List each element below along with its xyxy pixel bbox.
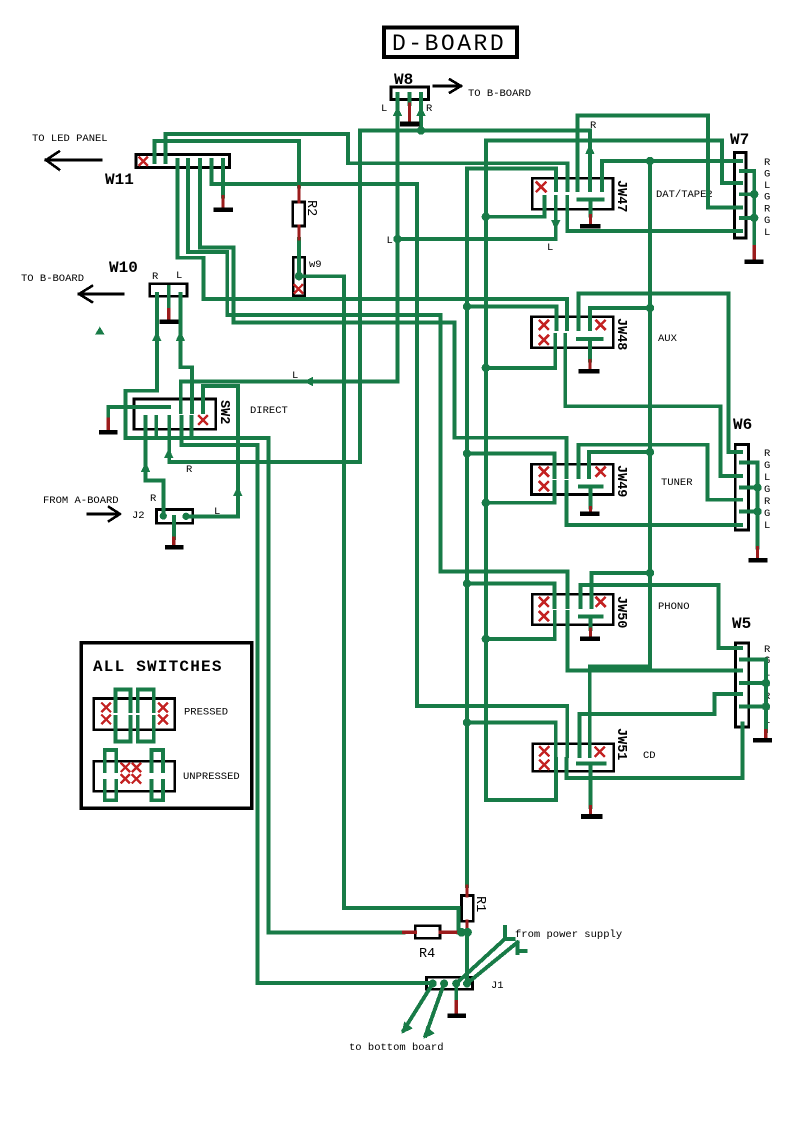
arrowhead to bottom board A [402,1022,413,1034]
X mark W11 pin1 [140,158,148,166]
wire J1 to bottom board arrow A [404,984,433,1031]
junction dot w9 pin [295,272,303,280]
wire SW2 pin b1 to J2 R pin [146,417,164,516]
connector JW49 [532,464,614,494]
wire W8 L pin down to SW2 pin t1 [181,94,398,412]
wire W8 center pin stub [408,94,412,104]
connector W10 [150,284,187,296]
junction dots W5 G bus [762,679,770,687]
wire W11 pin7 ground stub [221,160,225,197]
red lead W8 ground [408,104,411,122]
junction dots W7 G bus [750,190,758,198]
wire W8 R pin to junction [419,94,423,131]
svg-text:UNPRESSED: UNPRESSED [183,771,240,783]
X marks JW48 [540,321,605,344]
connector W5 [736,643,749,727]
arrow up W10 R [152,331,161,341]
arrow up J2 L line [233,486,242,496]
svg-text:PHONO: PHONO [658,601,690,613]
arrow up SW2 b1 to J2 R [141,462,150,472]
wire R bus tap to JW50 pin b1 [486,612,555,639]
svg-text:R: R [426,103,433,115]
red lead JW51 ground [589,807,592,814]
wire W6 G pins bus [741,463,758,548]
wire W10 center ground stub [167,287,171,310]
wire JW50 pin t4 to record bus [592,573,651,607]
red lead R4 right [440,931,458,934]
wire JW48 ground tee [578,339,602,361]
arrow down JW47 L [551,220,560,230]
svg-text:R: R [186,464,193,476]
svg-text:ALL SWITCHES: ALL SWITCHES [93,658,223,676]
svg-text:R: R [152,271,159,283]
svg-text:CD: CD [643,750,656,762]
red lead R1 bottom [465,921,468,931]
svg-text:R: R [764,496,771,508]
red lead JW49 ground [589,508,592,512]
svg-text:JW50: JW50 [613,596,628,628]
X mark w9 [295,285,303,293]
wire W11 pin3 to JW48 pin t2 [178,160,567,329]
svg-text:DIRECT: DIRECT [250,405,288,417]
ground JW48 [579,369,600,374]
wire JW51 pin t3 to W5 R2 [579,694,741,756]
wire L bus tap to JW48 pin t1 [467,307,557,329]
junction dot record bus JW50 [646,569,654,577]
wire SW2 left bar to ground [108,407,169,419]
X mark SW2 [199,416,207,424]
arrow TO B-BOARD left [79,286,123,302]
svg-text:G: G [764,169,770,181]
svg-text:W10: W10 [109,259,138,277]
arrow left L line [303,377,313,386]
svg-text:DAT/TAPE2: DAT/TAPE2 [656,189,713,201]
wire JW48 pin b2 to W6 L1 [565,335,741,476]
legend pressed X marks [102,704,167,724]
wire JW49 pin t4 to record bus [589,452,650,477]
junction dot L bus JW50 [463,579,471,587]
connector W11 [136,155,230,168]
red lead W11 ground [221,197,224,209]
arrow TO B-BOARD (right) [434,80,461,93]
ground W6 [748,558,767,563]
arrow TO LED PANEL (left) [46,152,101,170]
svg-text:R: R [764,157,771,169]
svg-text:R: R [764,204,771,216]
red lead J1 ground [455,1002,458,1014]
ground JW49 [580,511,600,516]
wire L bus vertical x467 to R1 [467,169,556,887]
arrow up W10 L [176,331,185,341]
svg-text:L: L [547,242,553,254]
red lead JW50 ground [589,629,592,637]
X marks JW50 [540,598,605,621]
jumper w9 [293,257,304,295]
svg-text:R: R [150,493,157,505]
wire JW48 pin t4 to record bus [590,308,650,329]
wire JW47 L pin b2 to W8L junction [398,197,556,239]
wire J1 from power supply line D [467,942,526,983]
junction dot R bus JW47 [482,213,490,221]
wire JW49 pin t3 to W6 R2 [579,445,742,500]
svg-text:TO B-BOARD: TO B-BOARD [468,88,531,100]
ground W8 [400,122,420,127]
svg-text:L: L [387,235,393,247]
junction dots R1 R4 node [457,928,466,937]
connector W8 [391,87,429,100]
junction dot record bus JW48 [646,304,654,312]
svg-text:R2: R2 [303,200,318,216]
wire R bus vertical x486 with top corner to W7 L1 [486,140,741,800]
svg-text:w9: w9 [309,259,322,271]
wire JW47 pin b3 to W7 L2 [567,197,741,231]
wire L bus tap to JW51 pin t1 [467,723,556,757]
svg-text:J1: J1 [491,980,504,992]
svg-text:G: G [764,215,770,227]
wire JW51 ground tee [578,763,605,807]
wire R4 right lead junction to J1 pin4 [458,932,467,983]
ground JW51 [581,814,603,819]
svg-text:R1: R1 [472,896,487,912]
ground J1 [447,1013,466,1018]
wire W10 R pin loop to SW2 bottom rail [125,294,268,438]
wire JW50 pin b2 to W5 L1 [568,612,742,671]
arrow FROM A-BOARD [88,507,120,521]
svg-text:G: G [764,460,770,472]
junction dots J1 pins [429,980,437,988]
connector W6 [735,445,748,531]
junction dot W8L-JW47L [393,235,401,243]
junction dots W6 G bus [753,483,761,491]
svg-text:L: L [381,103,387,115]
svg-text:L: L [764,520,770,532]
connector J1 [427,977,473,989]
wire J1 to bottom board arrow B [426,984,445,1036]
wire W11 pin5 to JW49 pin t2 [200,160,567,477]
legend pressed switch box [94,699,175,730]
wire R line W8R horizontal to JW47 pin t4 [360,131,590,190]
connector JW51 [533,744,614,772]
wire SW2 pin b2 stub [154,417,158,438]
svg-text:L: L [176,270,182,282]
svg-text:R4: R4 [419,947,435,962]
svg-text:W7: W7 [730,131,749,149]
wire R bus tap to JW47 pin b1 [486,197,545,217]
junction dot W8R [417,126,425,134]
svg-text:W5: W5 [732,615,751,633]
svg-text:J2: J2 [132,510,145,522]
svg-text:G: G [764,508,770,520]
wire J1 from power supply line C [456,927,513,984]
wire W11 pin4 to JW50 pin t2 [188,160,567,607]
wire SW2 pin b5 stub [190,417,194,438]
svg-text:SW2: SW2 [216,400,231,424]
ground JW50 [580,636,600,641]
svg-text:JW48: JW48 [613,318,628,350]
wire JW49 pin b2 to W6 L2 [567,482,742,525]
X mark JW47 [537,183,546,192]
svg-text:to bottom board: to bottom board [349,1042,444,1054]
legend pressed staples [115,690,153,742]
junction dot R bus JW48 [482,364,490,372]
wire JW47 ground tee [579,199,603,215]
legend unpressed staples [105,750,163,800]
red lead W6 ground [756,548,759,558]
wire JW49 ground tee [580,486,602,507]
wire W11 pin2 to JW47 pin t2 [166,134,568,190]
wire JW47 pin t3 bridge to W7 R2 [578,115,742,207]
X marks JW51 [540,747,604,769]
arrow lone near W10 [95,327,104,335]
wire J1 pin3 ground stub [454,984,458,1002]
junction dot L bus JW49 [463,449,471,457]
svg-text:JW47: JW47 [613,180,628,212]
wire JW48 pin t3 to W6 R1 [579,294,742,453]
red lead R2 top [297,187,300,203]
junction dot L bus JW51 [463,718,471,726]
connector JW50 [532,594,613,624]
red lead W10 ground [167,310,170,320]
ground J2 [165,545,184,549]
svg-text:PRESSED: PRESSED [184,707,228,719]
svg-text:JW49: JW49 [613,465,628,497]
arrow up W8 R [416,106,425,116]
svg-text:W11: W11 [105,171,134,189]
wire R line down to SW2 pin b3 [169,131,360,462]
wire W11 pin6 to JW51 pin t2 [211,160,567,756]
wire w9 pin to R4 junction via long vertical [299,276,458,932]
connector JW48 [532,317,614,348]
ground JW47 [580,224,601,229]
junction dot record bus JW49 [646,448,654,456]
svg-text:L: L [764,180,770,192]
wire L bus tap to JW49 pin t1 [467,453,555,477]
title box D-BOARD [384,28,517,58]
junction dot R bus JW50 [482,635,490,643]
connector JW47 [532,178,613,209]
svg-text:W6: W6 [733,416,752,434]
junction dot R bus JW49 [482,499,490,507]
resistor R1 [461,896,473,922]
junction dot record bus W7R1 [646,157,654,165]
svg-text:L: L [764,472,770,484]
junction dot L bus JW48 [463,302,471,310]
legend unpressed switch box [94,761,175,791]
svg-text:TUNER: TUNER [661,477,693,489]
red lead J2 ground [172,538,175,545]
switch SW2 [134,399,216,429]
wire R4 line from SW2 area vertical x268 [268,438,403,932]
svg-text:TO B-BOARD: TO B-BOARD [21,273,84,285]
wire JW50 ground tee [580,616,602,629]
arrowhead to bottom board B [424,1027,435,1039]
svg-text:L: L [764,227,770,239]
wire w9 internal stub [297,262,301,276]
wire J2 L pin to SW2 pin t3 [186,386,238,516]
svg-text:G: G [764,484,770,496]
ground W5 [753,738,772,743]
legend unpressed X marks [122,764,141,783]
arrow up SW2 b3 R line [164,448,173,458]
ground W7 [745,260,764,265]
red lead JW47 ground [589,216,592,225]
red lead R4 left [404,931,416,934]
resistor R2 [293,202,305,226]
X marks JW49 [540,468,605,491]
wire W11 pin stubs inside [178,160,224,166]
connector W7 [735,153,747,239]
wire W10 L pin to SW2 pin t2 [180,294,192,412]
red lead JW48 ground [588,361,591,370]
connector J2 [157,510,193,524]
wire L bus tap to JW50 pin t1 [467,584,555,607]
arrow up W8 L [393,106,402,116]
wire W11 pin1 to R2 [155,141,300,187]
ground W11 [214,208,234,213]
red lead W5 ground [764,731,767,738]
ground W10 [160,320,179,324]
wire R2 to w9 green segment [297,239,301,262]
wire JW47 pin t5 to W7 R1 [602,161,741,190]
wire record bus x650 down to JW51 pin t4 [590,161,650,756]
wire JW50 pin t3 to W5 R1 [580,585,741,648]
arrow up R into JW47 [585,144,594,154]
svg-text:TO LED PANEL: TO LED PANEL [32,133,108,145]
svg-text:D-BOARD: D-BOARD [392,31,506,57]
wire R bus tap to JW49 pin b1 [486,482,555,503]
svg-text:from power supply: from power supply [515,929,622,941]
red lead W7 ground [753,247,756,260]
svg-text:W8: W8 [394,71,413,89]
resistor R4 [415,926,440,938]
red lead R2 bottom [297,226,300,239]
svg-text:FROM A-BOARD: FROM A-BOARD [43,495,119,507]
ground SW2 [99,430,118,434]
svg-text:JW51: JW51 [613,728,628,760]
svg-text:AUX: AUX [658,333,678,345]
wire W5 G pins bus [741,660,766,731]
wire JW51 pin b2 to W5 L2 [567,724,743,778]
svg-text:R: R [764,448,771,460]
svg-text:G: G [764,192,770,204]
wire R bus tap to JW48 pin b1 [486,335,555,368]
red lead SW2 ground [106,419,109,430]
red lead R1 top [465,886,468,896]
junction dots J2 pins [160,512,167,519]
wire SW2 pin b4 to J1 pin1 [181,417,432,983]
wire R bus bottom to JW51 pin b1 [486,759,556,800]
wire W7 G pins bus [741,171,754,247]
wire J2 center ground stub [172,517,176,538]
legend box ALL SWITCHES [81,643,252,808]
